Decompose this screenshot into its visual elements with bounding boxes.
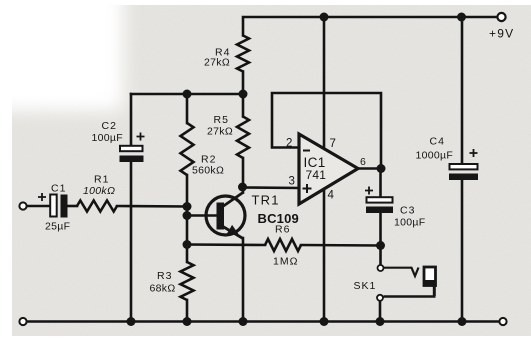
junction ground C4 [458,317,467,326]
svg-text:68kΩ: 68kΩ [150,283,176,295]
wire C2 top branch [130,94,133,146]
junction collector node [238,183,247,192]
label C2 [92,120,145,144]
junction C4 rail [457,13,466,22]
junction ground pin4 [320,317,329,326]
svg-text:SK1: SK1 [354,280,377,292]
wire R4 bottom to node A [242,72,245,117]
terminal +9V [497,13,505,21]
junction ground emitter [239,317,248,326]
svg-text:3: 3 [289,176,295,188]
junction ground R3 [183,317,192,326]
label R5 [207,114,233,138]
junction R1 base node [183,202,192,211]
capacitor C4 [449,164,478,180]
wire R6 node to SK1 tip terminal [379,246,382,266]
wire collector node to pin 3 [243,186,300,189]
wire TR1 emitter to ground [242,238,245,322]
label R4 [204,47,230,69]
junction pin7 rail [320,13,329,22]
svg-text:R3: R3 [157,270,172,282]
junction ground C2 [127,317,136,326]
junction R4 node A [239,90,248,99]
wire R5 bottom to collector node [242,158,245,193]
wire R2 tail top [186,94,189,123]
junction R6 output node [376,241,385,250]
svg-text:R1: R1 [94,174,109,186]
svg-text:C2: C2 [102,120,117,132]
label R1 [83,174,115,198]
wire R6 to output node [301,244,381,247]
svg-text:TR1: TR1 [252,193,280,208]
svg-text:C4: C4 [430,136,445,148]
svg-text:R5: R5 [214,114,229,126]
svg-text:560kΩ: 560kΩ [192,165,224,177]
terminal SK1 tip [378,265,384,271]
resistor R5 [237,117,249,159]
wire input to C1 [27,205,51,208]
wire C4 bottom to ground [461,180,464,322]
svg-text:100µF: 100µF [394,217,425,229]
resistor R4 [237,36,249,72]
wire base node to R6 [187,243,265,246]
wire R2 bottom to base node to R3 top [186,175,189,262]
svg-text:25µF: 25µF [45,221,70,233]
wire R3 bottom to ground [186,300,189,322]
wire top supply rail [243,17,501,36]
resistor R3 [181,262,194,300]
label IC1 [304,155,327,182]
svg-text:1MΩ: 1MΩ [273,256,298,268]
svg-text:100µF: 100µF [92,132,123,144]
svg-text:7: 7 [330,138,336,150]
terminal input top [19,202,26,209]
svg-text:C3: C3 [400,205,415,217]
wire pin 4 to ground rail [323,189,326,322]
svg-text:27kΩ: 27kΩ [204,57,230,69]
op-amp U IC1 [299,134,358,204]
svg-text:6: 6 [360,156,366,168]
junction ground SK1 [376,317,385,326]
label C4 [416,136,478,162]
resistor R6 [265,239,301,251]
label C3 [365,187,425,229]
wire op-amp output [358,167,381,170]
svg-text:27kΩ: 27kΩ [207,126,233,138]
svg-text:100kΩ: 100kΩ [83,185,115,197]
svg-text:+9V: +9V [489,27,514,41]
wire C1 to R1 [68,205,78,208]
label TR1 [252,193,299,227]
svg-text:741: 741 [306,168,327,182]
junction R2 node A [183,90,192,99]
wire output to C3 [379,169,382,198]
wire R1 to base node [117,205,187,208]
terminal ground left [19,318,26,325]
wire base node to TR1 base [187,214,217,217]
svg-text:C1: C1 [51,183,66,195]
label R6 [273,224,298,268]
junction R6 base node [183,240,192,249]
terminal ground right [499,318,506,325]
capacitor C2 [120,146,144,162]
resistor R1 [77,201,117,212]
wire bottom ground rail [26,320,500,323]
svg-text:BC109: BC109 [258,211,299,226]
svg-text:1000µF: 1000µF [416,150,454,162]
wire feedback loop pin2 over top to output [272,93,381,169]
terminal SK1 sleeve [377,295,383,301]
capacitor C1 [50,195,67,218]
wire node A horizontal [131,93,243,96]
capacitor C3 [366,197,393,213]
wire C3 bottom to R6 node [379,213,382,246]
svg-text:2: 2 [286,138,292,150]
wire C4 top branch [461,17,464,164]
wire C2 bottom to ground [130,162,133,322]
label R3 [150,270,176,295]
junction base wire node [183,211,192,220]
svg-text:4: 4 [328,190,335,202]
wire SK1 sleeve to ground rail [379,301,382,322]
wire pin 7 from supply rail [323,17,326,150]
junction output node [377,164,386,173]
label R2 [192,154,224,177]
label C1 [38,183,70,233]
transistor Q TR1 [206,193,245,239]
resistor R2 [181,123,194,175]
socket SK1 jack [384,267,436,297]
